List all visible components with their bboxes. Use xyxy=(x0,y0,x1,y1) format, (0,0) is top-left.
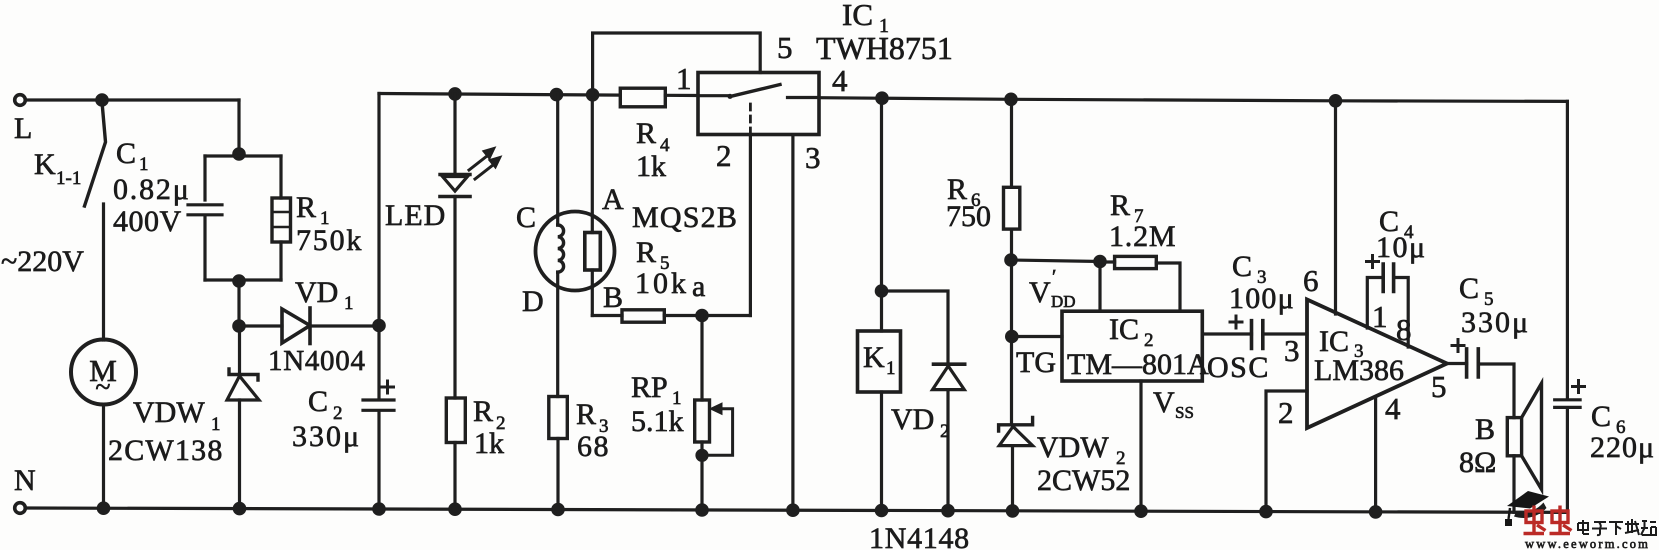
node a xyxy=(697,310,707,320)
svg-text:TWH8751: TWH8751 xyxy=(816,30,953,66)
capacitor C1 xyxy=(188,156,222,280)
wire VDD pin into IC2 xyxy=(1098,262,1101,312)
svg-text:2CW52: 2CW52 xyxy=(1037,464,1130,497)
svg-text:4: 4 xyxy=(832,63,848,98)
resistor R1 xyxy=(279,156,282,280)
svg-text:B: B xyxy=(603,281,623,314)
svg-text:10μ: 10μ xyxy=(1376,231,1427,264)
wire pin1 and C4 loop xyxy=(1367,278,1383,329)
node RP1 bottom xyxy=(697,450,707,460)
svg-text:B: B xyxy=(1475,413,1495,446)
bottom bus xyxy=(27,508,1568,512)
capacitor C6 electrolytic xyxy=(1555,101,1580,512)
svg-text:C: C xyxy=(516,201,536,234)
svg-text:1k: 1k xyxy=(474,427,504,460)
node L junction xyxy=(97,95,107,105)
IC1 box xyxy=(698,73,819,135)
wire pin4 xyxy=(1374,397,1377,512)
LED xyxy=(453,94,456,175)
gas sensor MQS2B circle xyxy=(536,212,615,291)
svg-text:1: 1 xyxy=(676,61,692,96)
svg-text:C: C xyxy=(1459,272,1479,305)
wire pin2 xyxy=(1266,391,1307,512)
svg-text:4: 4 xyxy=(1385,391,1401,426)
node C1 top xyxy=(234,149,244,159)
svg-text:2: 2 xyxy=(940,421,950,442)
svg-text:1: 1 xyxy=(1372,299,1388,334)
svg-text:5: 5 xyxy=(1431,369,1447,404)
svg-text:L: L xyxy=(14,112,32,145)
svg-text:2CW138: 2CW138 xyxy=(108,434,224,467)
wire pin6 xyxy=(1334,101,1337,314)
svg-text:750: 750 xyxy=(946,200,991,233)
capacitor C4 xyxy=(1383,264,1393,292)
junction dots bottom bus xyxy=(98,503,108,513)
svg-text:www.eeworm.com: www.eeworm.com xyxy=(1525,537,1650,550)
sensor element A-B xyxy=(591,95,594,233)
node pin6 top xyxy=(1330,96,1340,106)
wire TG to IC2 xyxy=(1012,335,1062,338)
wire to VD1 node xyxy=(237,280,240,326)
resistor R3 xyxy=(549,397,568,439)
svg-text:0.82μ: 0.82μ xyxy=(113,173,191,206)
switch K1-1 blade xyxy=(85,102,106,206)
wire pin5 to C5 xyxy=(1447,362,1467,365)
zener VDW1 xyxy=(238,326,241,375)
svg-text:C: C xyxy=(1232,250,1252,283)
LED arrow 1 xyxy=(469,156,487,170)
svg-text:C: C xyxy=(1591,400,1611,433)
svg-text:VD: VD xyxy=(891,403,934,436)
watermark chong glyph 2 xyxy=(1550,506,1572,534)
svg-text:3: 3 xyxy=(1284,333,1300,368)
svg-text:330μ: 330μ xyxy=(292,420,361,453)
svg-text:D: D xyxy=(522,285,544,318)
svg-text:~: ~ xyxy=(95,372,110,403)
svg-text:IC: IC xyxy=(842,0,873,32)
svg-text:VDW: VDW xyxy=(133,396,205,429)
svg-text:N: N xyxy=(14,464,36,497)
plus mark C6 xyxy=(1573,381,1585,393)
svg-text:10k: 10k xyxy=(635,267,689,300)
watermark graduation cap icon xyxy=(1505,491,1549,526)
resistor R5 xyxy=(622,310,664,322)
capacitor C2 electrolytic xyxy=(363,326,394,510)
capacitor C5 xyxy=(1467,349,1479,377)
terminal L xyxy=(15,95,26,106)
plus mark C5 xyxy=(1452,340,1464,352)
resistor R7 xyxy=(1100,260,1115,263)
svg-text:VD: VD xyxy=(295,276,338,309)
node VDD xyxy=(1006,255,1016,265)
wire parallel top rail xyxy=(205,154,281,157)
wire OSC xyxy=(1202,332,1251,335)
svg-text:8: 8 xyxy=(1396,312,1412,347)
svg-text:400V: 400V xyxy=(113,205,182,238)
relay K1 xyxy=(880,98,883,331)
svg-text:C: C xyxy=(308,385,328,418)
svg-text:R: R xyxy=(296,191,316,224)
node R4 left xyxy=(587,90,597,100)
node C1 bottom xyxy=(234,276,244,286)
svg-text:OSC: OSC xyxy=(1207,351,1270,384)
svg-text:V: V xyxy=(1153,386,1175,419)
diode VD2 xyxy=(934,362,965,366)
IC2 box xyxy=(1062,311,1202,381)
svg-text:TG: TG xyxy=(1016,346,1056,379)
svg-text:C: C xyxy=(116,137,136,170)
svg-text:R: R xyxy=(576,398,596,431)
wire parallel bottom rail xyxy=(205,278,281,281)
svg-text:R: R xyxy=(1110,189,1130,222)
wire L top xyxy=(26,98,239,101)
svg-text:1N4148: 1N4148 xyxy=(869,522,970,550)
wire motor to bottom bus xyxy=(102,405,105,509)
sensor heater coil xyxy=(556,95,559,225)
wire VSS to bottom bus xyxy=(1139,381,1142,511)
svg-text:6: 6 xyxy=(1303,263,1319,298)
svg-text:RP: RP xyxy=(631,371,668,404)
node R6 top xyxy=(1006,94,1016,104)
svg-text:100μ: 100μ xyxy=(1229,282,1295,315)
node TG xyxy=(1007,331,1017,341)
svg-text:K: K xyxy=(863,341,885,374)
resistor R6 xyxy=(1010,99,1013,187)
wire B to R5 xyxy=(592,314,622,317)
plus mark C4 xyxy=(1367,256,1379,268)
motor M circle xyxy=(71,340,136,405)
RP1 wiper arrow xyxy=(703,409,733,456)
svg-text:1: 1 xyxy=(344,293,354,314)
wire switch to motor xyxy=(102,204,105,340)
wire C4 to pin8 xyxy=(1394,278,1409,348)
svg-text:1: 1 xyxy=(211,414,221,435)
svg-text:2: 2 xyxy=(716,138,732,173)
potentiometer RP1 xyxy=(700,316,703,401)
svg-text:5.1k: 5.1k xyxy=(631,405,684,438)
wire feedback pin5 loop xyxy=(593,33,761,95)
terminal N xyxy=(15,503,26,514)
speaker B xyxy=(1507,418,1521,456)
wire VD1 node up to DC bus xyxy=(377,94,380,326)
svg-text:1.2M: 1.2M xyxy=(1109,220,1176,253)
svg-text:1N4004: 1N4004 xyxy=(268,345,366,377)
svg-text:LM386: LM386 xyxy=(1314,354,1404,387)
node VD2 branch xyxy=(876,286,886,296)
svg-text:DD: DD xyxy=(1051,292,1076,311)
capacitor C3 xyxy=(1252,321,1263,349)
svg-text:1: 1 xyxy=(886,358,896,379)
svg-text:VDW: VDW xyxy=(1037,431,1109,464)
node R7 left xyxy=(1095,256,1105,266)
svg-text:K: K xyxy=(34,148,56,181)
zener VDW2 xyxy=(999,418,1033,432)
svg-text:R: R xyxy=(636,117,656,150)
wire to VD2 xyxy=(882,291,949,364)
plus mark C3 xyxy=(1230,316,1242,328)
node LED top xyxy=(450,89,460,99)
svg-text:3: 3 xyxy=(805,140,821,175)
node sensor C top xyxy=(551,89,561,99)
svg-text:LED: LED xyxy=(385,199,446,232)
IC1 internal switch xyxy=(698,94,729,97)
resistor R4 xyxy=(620,88,665,107)
svg-text:R: R xyxy=(473,395,493,428)
diode VD1 xyxy=(239,324,282,327)
svg-text:A: A xyxy=(602,183,624,216)
svg-text:8Ω: 8Ω xyxy=(1459,446,1496,479)
node K1 top xyxy=(877,93,887,103)
svg-text:R: R xyxy=(636,236,656,269)
svg-text:TM—801A: TM—801A xyxy=(1067,348,1209,381)
node VD1 cathode xyxy=(374,320,384,330)
svg-text:68: 68 xyxy=(577,430,610,463)
svg-text:IC: IC xyxy=(1109,313,1139,346)
svg-text:750k: 750k xyxy=(296,224,363,257)
wire IC1 pin3 to bottom bus xyxy=(791,135,794,511)
wire pin2 drop xyxy=(749,135,752,316)
plus mark C2 xyxy=(382,381,394,393)
svg-text:′: ′ xyxy=(1052,266,1056,288)
watermark text dianzi xiazaizhan xyxy=(1578,519,1656,535)
LED arrow 2 xyxy=(475,165,493,179)
watermark chong glyph 1 xyxy=(1524,506,1546,534)
svg-text:a: a xyxy=(692,270,705,303)
node VD1 anode xyxy=(234,321,244,331)
svg-text:1-1: 1-1 xyxy=(56,168,81,189)
op-amp IC3 triangle xyxy=(1307,300,1447,429)
svg-text:SS: SS xyxy=(1175,403,1194,422)
svg-text:2: 2 xyxy=(1278,395,1294,430)
svg-text:5: 5 xyxy=(777,30,793,65)
wire VDD to R7 xyxy=(1011,260,1100,262)
svg-text:1: 1 xyxy=(139,154,149,175)
svg-text:MQS2B: MQS2B xyxy=(632,201,738,234)
resistor R2 xyxy=(446,398,465,443)
svg-text:330μ: 330μ xyxy=(1461,306,1530,339)
svg-text:1k: 1k xyxy=(636,150,666,183)
wire C1 branch drop xyxy=(237,100,240,156)
top DC bus xyxy=(379,94,620,96)
svg-text:220μ: 220μ xyxy=(1590,431,1655,464)
svg-text:V: V xyxy=(1029,276,1051,309)
svg-text:~220V: ~220V xyxy=(1,245,84,278)
